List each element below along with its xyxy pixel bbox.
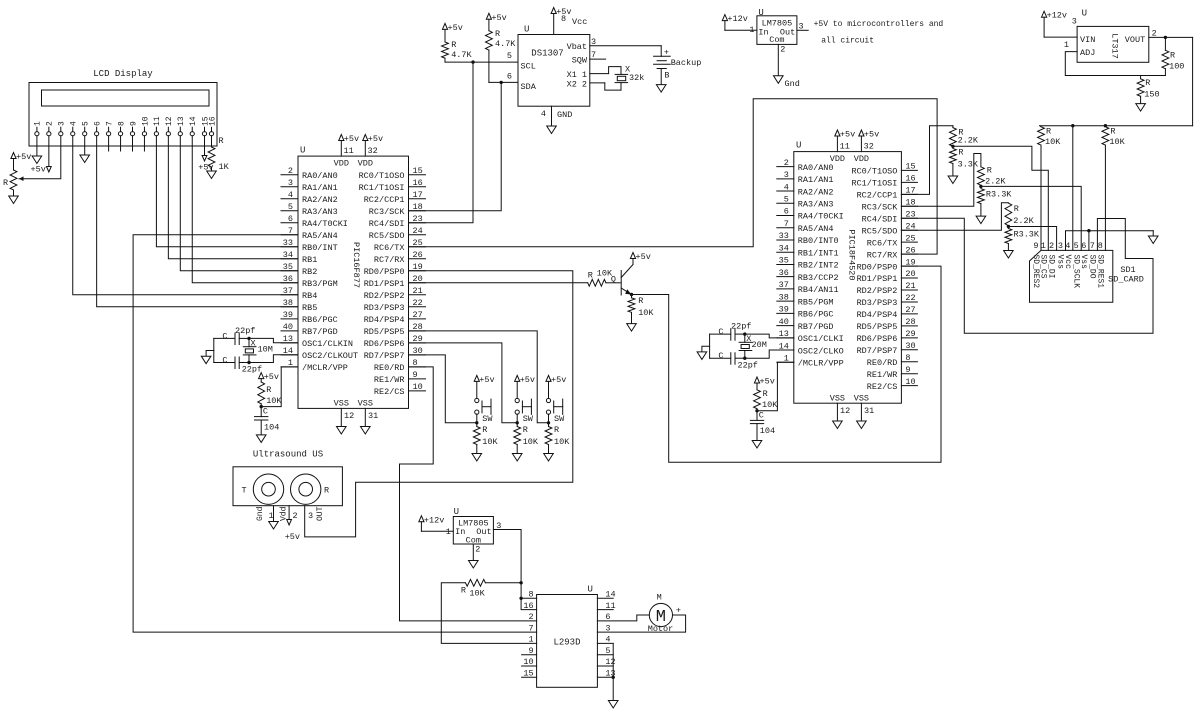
- svg-text:35: 35: [283, 262, 293, 272]
- 3.3v rail: [1040, 125, 1193, 127]
- svg-text:4: 4: [70, 121, 79, 126]
- svg-text:VSS: VSS: [854, 394, 869, 404]
- ground MCLR cap: [256, 435, 266, 443]
- svg-text:RC7/RX: RC7/RX: [867, 250, 898, 260]
- pin 12 VSS: [836, 403, 838, 421]
- ground emitter resistor: [627, 324, 637, 332]
- LCD pin 5: [83, 132, 87, 136]
- pin 19 RD0/PSP0: [901, 265, 917, 267]
- svg-text:36: 36: [779, 268, 789, 278]
- svg-text:Vbat: Vbat: [567, 42, 587, 52]
- wire SDA to PIC16F877 RC3/SCK: [409, 82, 502, 210]
- svg-text:8: 8: [1098, 241, 1103, 251]
- node R10K2 rail junction: [1104, 124, 1107, 127]
- resistor R 4.7K on SDA: [486, 13, 491, 19]
- svg-text:RD2/PSP2: RD2/PSP2: [364, 291, 405, 301]
- wire to VIN pin3: [1044, 36, 1077, 38]
- ground L293D: [608, 701, 618, 709]
- svg-text:1: 1: [1064, 40, 1069, 50]
- svg-text:2: 2: [288, 166, 293, 176]
- svg-text:GND: GND: [557, 110, 572, 120]
- svg-text:C: C: [759, 411, 764, 421]
- svg-text:RA1/AN1: RA1/AN1: [798, 175, 834, 185]
- regulator U6 LM7805 (bottom): [453, 517, 493, 545]
- svg-text:RC5/SDO: RC5/SDO: [369, 231, 405, 241]
- svg-text:RC0/T1OSO: RC0/T1OSO: [359, 171, 405, 181]
- pin 2 Com to ground: [472, 544, 474, 561]
- svg-text:Q: Q: [611, 275, 616, 285]
- pin 17 RC2/CCP1: [901, 193, 917, 195]
- svg-text:SD_CS: SD_CS: [1038, 255, 1047, 279]
- svg-text:RB7/PGD: RB7/PGD: [798, 322, 834, 332]
- svg-text:RC3/SCK: RC3/SCK: [369, 207, 406, 217]
- +5v pin11: [339, 135, 344, 141]
- pin 1 Gnd: [273, 506, 275, 522]
- svg-text:ADJ: ADJ: [1080, 48, 1095, 58]
- svg-text:5: 5: [507, 51, 512, 61]
- svg-text:24: 24: [413, 226, 423, 236]
- svg-text:100: 100: [1169, 62, 1184, 72]
- svg-text:R: R: [638, 296, 643, 306]
- resistor R 4.7K on SCL: [442, 23, 447, 29]
- svg-text:6: 6: [1081, 241, 1086, 251]
- svg-text:RB0/INT0: RB0/INT0: [798, 236, 839, 246]
- svg-text:3: 3: [1072, 17, 1077, 27]
- resistor R 10K pullup (SD_RES1): [1102, 127, 1109, 145]
- svg-text:RB5: RB5: [302, 303, 317, 313]
- wire R10K to L293D pin1: [441, 583, 536, 644]
- pin 25 RC6/TX: [901, 241, 917, 243]
- svg-text:M: M: [657, 593, 662, 603]
- node emitter junction: [630, 293, 633, 296]
- L293D pin 11: [597, 609, 613, 611]
- svg-text:RC3/SCK: RC3/SCK: [862, 202, 899, 212]
- svg-text:RD2/PSP2: RD2/PSP2: [857, 286, 898, 296]
- svg-text:16: 16: [413, 178, 423, 188]
- svg-text:R: R: [219, 136, 224, 146]
- +12v input: [419, 516, 424, 522]
- svg-text:6: 6: [288, 214, 293, 224]
- svg-text:2: 2: [1152, 29, 1157, 39]
- svg-text:8: 8: [905, 353, 910, 363]
- pin 28 RD5/PSP5: [409, 330, 426, 332]
- pin 21 RD2/PSP2: [409, 294, 426, 296]
- pin 8 Vcc: [553, 14, 555, 35]
- LCD pin 10: [142, 132, 146, 136]
- pin 1 /MCLR/VPP: [777, 361, 794, 363]
- pin 4 RA2/AN2: [777, 190, 794, 192]
- pin 32 VDD: [364, 141, 366, 157]
- svg-text:DS1307: DS1307: [531, 49, 563, 59]
- svg-text:RB4/AN11: RB4/AN11: [798, 285, 839, 295]
- L293D pin 15: [522, 676, 537, 678]
- svg-text:VOUT: VOUT: [1125, 35, 1145, 45]
- svg-text:2: 2: [46, 121, 55, 126]
- svg-text:C: C: [718, 351, 723, 361]
- svg-text:OSC1/CLKIN: OSC1/CLKIN: [302, 339, 353, 349]
- svg-text:9: 9: [1033, 241, 1038, 251]
- svg-text:104: 104: [264, 423, 279, 433]
- LCD pin 12: [166, 132, 170, 136]
- svg-text:39: 39: [779, 305, 789, 315]
- svg-text:RD7/PSP7: RD7/PSP7: [857, 346, 898, 356]
- svg-text:Gnd: Gnd: [256, 506, 265, 521]
- svg-text:Vdd: Vdd: [279, 506, 288, 521]
- svg-text:R: R: [461, 585, 466, 595]
- LCD pin 10 stub: [143, 136, 145, 151]
- svg-text:+5v: +5v: [636, 252, 651, 262]
- ground pin31: [361, 427, 371, 435]
- svg-text:+5v: +5v: [344, 134, 359, 144]
- pin 21 RD2/PSP2: [901, 289, 917, 291]
- pin 14 OSC2/CLKOUT: [281, 354, 298, 356]
- svg-text:RE2/CS: RE2/CS: [374, 387, 405, 397]
- node switch junction (SW1): [475, 421, 478, 424]
- ground divider3: [1004, 251, 1014, 259]
- svg-text:150: 150: [1144, 89, 1159, 99]
- svg-text:PIC18F4520: PIC18F4520: [847, 229, 857, 280]
- svg-text:RC0/T1OSO: RC0/T1OSO: [851, 167, 897, 177]
- svg-text:R3.3K: R3.3K: [986, 190, 1012, 200]
- divider 1: resistor R 2.2K: [952, 126, 954, 128]
- wire PIC18F4520 RC5/SDO to divider 3: [901, 203, 1008, 230]
- svg-text:RA4/T0CKI: RA4/T0CKI: [798, 212, 844, 222]
- svg-text:33: 33: [779, 231, 789, 241]
- svg-text:3: 3: [288, 178, 293, 188]
- LCD pin 7: [107, 132, 111, 136]
- svg-text:SD_CARD: SD_CARD: [1108, 275, 1144, 285]
- pin 29 RD6/PSP6: [409, 342, 426, 344]
- pin 25 RC6/TX: [409, 246, 426, 248]
- svg-text:RB3/PGM: RB3/PGM: [302, 279, 338, 289]
- wire +12v to In pin1: [725, 29, 757, 31]
- pin 1 /MCLR/VPP: [281, 366, 298, 368]
- wire PIC16F877 RE0 to L293D pin2: [400, 367, 537, 621]
- svg-text:SD_RES1: SD_RES1: [1096, 255, 1105, 289]
- svg-text:Vss: Vss: [1079, 255, 1088, 270]
- wire MCLR to pin1 18F: [757, 362, 794, 411]
- svg-text:+5v: +5v: [760, 377, 775, 387]
- pin 16 RC1/T1OSI: [409, 186, 426, 188]
- svg-text:RD6/PSP6: RD6/PSP6: [857, 334, 898, 344]
- node VOUT junction: [1164, 36, 1167, 39]
- svg-text:VSS: VSS: [358, 399, 373, 409]
- +5v pin32: [859, 130, 864, 136]
- svg-text:RD4/PSP4: RD4/PSP4: [857, 310, 898, 320]
- svg-text:RA2/AN2: RA2/AN2: [798, 187, 834, 197]
- svg-text:3: 3: [308, 511, 313, 521]
- svg-text:R: R: [451, 40, 456, 50]
- svg-text:27: 27: [413, 310, 423, 320]
- svg-text:RB3/CCP2: RB3/CCP2: [798, 273, 839, 283]
- node switch junction (SW3): [547, 421, 550, 424]
- svg-text:all circuit: all circuit: [821, 37, 874, 46]
- svg-text:38: 38: [779, 292, 789, 302]
- ground R150: [1136, 104, 1146, 112]
- svg-text:U: U: [588, 585, 593, 595]
- wire cap to OSC1 18F: [745, 334, 794, 338]
- pin 15 RC0/T1OSO: [901, 169, 917, 171]
- resistor R 10K transistor base: [409, 282, 588, 284]
- LCD pin 2: [47, 132, 51, 136]
- pin 2 RA0/AN0: [777, 166, 794, 168]
- svg-text:R: R: [1014, 204, 1019, 214]
- svg-text:+5v: +5v: [479, 375, 494, 385]
- svg-text:VDD: VDD: [830, 154, 845, 164]
- svg-text:VDD: VDD: [334, 159, 349, 169]
- svg-text:/MCLR/VPP: /MCLR/VPP: [302, 363, 348, 373]
- svg-text:16: 16: [523, 601, 533, 611]
- pin 12 VSS: [340, 408, 342, 426]
- pin 4 GND: [551, 106, 553, 126]
- svg-text:RD1/PSP1: RD1/PSP1: [857, 274, 898, 284]
- svg-text:10: 10: [905, 377, 915, 387]
- wire LCD pin12 to PIC16F877 RB1: [168, 136, 298, 259]
- svg-text:12: 12: [165, 116, 174, 126]
- svg-text:SW: SW: [482, 414, 493, 424]
- svg-text:10K: 10K: [469, 588, 485, 598]
- svg-text:RC4/SDI: RC4/SDI: [862, 214, 898, 224]
- svg-text:32: 32: [368, 146, 378, 156]
- pin 18 RC3/SCK: [409, 210, 426, 212]
- wire to ground: [612, 677, 614, 700]
- wire emitter to PIC18F4520 RD0: [632, 266, 942, 462]
- node Vcc rail junction: [1071, 124, 1074, 127]
- +5v MCLR pullup 18F: [754, 377, 759, 383]
- wire MCLR to pin1: [261, 367, 298, 407]
- svg-text:20M: 20M: [752, 340, 767, 350]
- svg-text:1: 1: [446, 527, 451, 537]
- svg-text:C: C: [263, 407, 268, 417]
- +5v pin11: [835, 130, 840, 136]
- pin 40 RB7/PGD: [777, 325, 794, 327]
- pin 6 SDA: [489, 81, 518, 83]
- LCD pin 6: [95, 132, 99, 136]
- svg-text:+5V to microcontrollers and: +5V to microcontrollers and: [814, 20, 944, 29]
- svg-text:RA0/AN0: RA0/AN0: [798, 163, 834, 173]
- svg-text:4: 4: [541, 109, 546, 119]
- svg-text:RD0/PSP0: RD0/PSP0: [857, 262, 898, 272]
- pin 24 RC5/SDO: [901, 229, 917, 231]
- wire L293D pin6 to motor: [597, 615, 649, 621]
- svg-text:9: 9: [413, 370, 418, 380]
- pin 23 RC4/SDI: [901, 217, 917, 219]
- svg-text:8: 8: [117, 121, 126, 126]
- pin 20 RD1/PSP1: [901, 277, 917, 279]
- svg-text:RD6/PSP6: RD6/PSP6: [364, 339, 405, 349]
- wire LCD pin4 to PIC16F877 RB4: [73, 136, 298, 295]
- pin 26 RC7/RX: [901, 253, 917, 255]
- svg-text:L293D: L293D: [553, 638, 580, 648]
- node R10K junction: [519, 581, 522, 584]
- wire divider2 to SD pin5 SD_SCLK: [981, 186, 1081, 250]
- svg-text:2: 2: [475, 545, 480, 555]
- svg-text:26: 26: [413, 250, 423, 260]
- resistor R 10K enable: [485, 582, 521, 584]
- svg-text:11: 11: [153, 116, 162, 126]
- pin 40 RB7/PGD: [281, 330, 298, 332]
- resistor R 10K MCLR 18F: [754, 390, 761, 409]
- node pin8 junction: [519, 597, 522, 600]
- pin 26 RC7/RX: [409, 258, 426, 260]
- wire divider3 to SD pin2 SD_DI: [1008, 227, 1056, 251]
- svg-text:R: R: [482, 425, 487, 435]
- regulator U4 LT317: [1077, 26, 1149, 62]
- resistor R 1K on LCD pin16: [211, 136, 213, 147]
- svg-text:37: 37: [283, 286, 293, 296]
- pin 29 RD6/PSP6: [901, 337, 917, 339]
- svg-text:15: 15: [905, 162, 915, 172]
- svg-text:RD5/PSP5: RD5/PSP5: [364, 327, 405, 337]
- node SDA junction: [500, 81, 503, 84]
- svg-text:10: 10: [413, 382, 423, 392]
- svg-text:X2 2: X2 2: [567, 79, 587, 89]
- svg-text:R: R: [1110, 127, 1115, 137]
- node MCLR junction: [260, 405, 263, 408]
- svg-text:+5v: +5v: [491, 13, 506, 23]
- pin 5 RA3/AN3: [281, 210, 298, 212]
- wire LCD pin2: [48, 136, 50, 167]
- svg-text:R: R: [1046, 127, 1051, 137]
- pin 7 RA5/AN4: [281, 234, 298, 236]
- svg-text:R: R: [958, 147, 963, 157]
- ground divider1: [948, 176, 958, 184]
- wire crystal caps left 18F: [709, 334, 711, 358]
- svg-text:SQW: SQW: [572, 55, 588, 65]
- svg-text:2: 2: [1049, 241, 1054, 251]
- svg-text:7: 7: [1090, 241, 1095, 251]
- LCD pin 9 stub: [132, 136, 134, 151]
- pin 6 RA4/T0CKI: [281, 222, 298, 224]
- node MCLR junction 18F: [755, 409, 758, 412]
- svg-text:33: 33: [283, 238, 293, 248]
- wire R10K2 to SD pin8: [1104, 145, 1106, 250]
- svg-text:Ultrasound US: Ultrasound US: [253, 450, 323, 460]
- wire PIC16F877 RA5 to L293D pin7: [133, 235, 536, 632]
- wire switch to PIC pin (SW2): [409, 343, 518, 423]
- svg-text:C: C: [222, 356, 227, 366]
- wire SD pin7 SD_DO to PIC18F4520 RC4/SDI: [901, 218, 1153, 333]
- svg-text:22pf: 22pf: [738, 360, 758, 370]
- svg-text:20: 20: [905, 269, 915, 279]
- ground MCLR cap 18F: [752, 441, 762, 449]
- svg-text:RC7/RX: RC7/RX: [374, 255, 405, 265]
- svg-text:RB1: RB1: [302, 255, 317, 265]
- divider 3: resistor R 2.2K: [1005, 203, 1012, 226]
- ground battery: [656, 85, 666, 93]
- svg-text:SW: SW: [554, 414, 565, 424]
- LCD pin 8: [118, 132, 122, 136]
- svg-text:PIC16F877: PIC16F877: [351, 242, 361, 288]
- svg-text:T: T: [242, 485, 247, 495]
- node SCL junction: [471, 60, 474, 63]
- pin 11 VDD: [340, 141, 342, 157]
- svg-text:RB0/INT: RB0/INT: [302, 243, 338, 253]
- pin 16 RC1/T1OSI: [901, 181, 917, 183]
- node divider2 junction: [979, 185, 982, 188]
- svg-text:+5v: +5v: [864, 130, 879, 140]
- svg-text:13: 13: [177, 116, 186, 126]
- resistor R 10K pulldown (SW2): [516, 423, 518, 427]
- svg-text:RB2: RB2: [302, 267, 317, 277]
- svg-text:+5v: +5v: [840, 130, 855, 140]
- svg-text:+: +: [676, 606, 681, 616]
- pin 3 RA1/AN1: [777, 178, 794, 180]
- svg-text:R: R: [987, 166, 992, 176]
- wire rail to SD pin4 Vcc: [1072, 126, 1074, 251]
- svg-text:RD3/PSP3: RD3/PSP3: [364, 303, 405, 313]
- wire switch to PIC pin (SW3): [409, 331, 549, 423]
- LCD pin 1: [35, 132, 39, 136]
- pin 10 RE2/CS: [901, 385, 917, 387]
- svg-text:Vcc: Vcc: [572, 17, 587, 27]
- svg-text:10K: 10K: [1109, 137, 1125, 147]
- pin 34 RB1/INT1: [777, 251, 794, 253]
- svg-text:R: R: [324, 485, 329, 495]
- svg-text:RB1/INT1: RB1/INT1: [798, 248, 839, 258]
- svg-text:RA0/AN0: RA0/AN0: [302, 171, 338, 181]
- ground potentiometer: [9, 196, 19, 204]
- pin 1 X1: [590, 73, 609, 75]
- svg-text:15: 15: [413, 166, 423, 176]
- svg-text:B: B: [664, 71, 669, 81]
- LCD pin 7 stub: [108, 136, 110, 151]
- svg-text:+5v: +5v: [31, 165, 46, 175]
- svg-text:+5v: +5v: [368, 134, 383, 144]
- svg-text:3.3K: 3.3K: [958, 160, 979, 170]
- svg-text:+5v: +5v: [556, 7, 571, 17]
- svg-text:RE0/RD: RE0/RD: [374, 363, 405, 373]
- node pin13 junction: [612, 676, 615, 679]
- pin 35 RB2/INT2: [777, 263, 794, 265]
- pin 24 RC5/SDO: [409, 234, 426, 236]
- svg-text:1: 1: [269, 511, 274, 521]
- svg-text:SD_DO: SD_DO: [1088, 255, 1097, 279]
- L293D pin 9: [522, 654, 537, 656]
- svg-text:10K: 10K: [266, 396, 282, 406]
- wire SD Vss pins to ground: [1066, 231, 1154, 251]
- SD card SD1: [1030, 250, 1113, 302]
- ground divider2: [976, 216, 986, 224]
- node OSC1 junction 18F: [743, 332, 746, 335]
- svg-text:R: R: [763, 389, 768, 399]
- svg-text:RC2/CCP1: RC2/CCP1: [857, 191, 898, 201]
- svg-text:7: 7: [784, 219, 789, 229]
- svg-text:35: 35: [779, 256, 789, 266]
- wire L293D pins 4,5,12,13 common: [597, 642, 613, 644]
- svg-text:2: 2: [784, 158, 789, 168]
- pin 39 RB6/PGC: [777, 312, 794, 314]
- wire LCD pin1 to ground: [36, 136, 38, 156]
- LCD pin 14: [190, 132, 194, 136]
- LCD pin 9: [130, 132, 134, 136]
- svg-text:+5v: +5v: [264, 372, 279, 382]
- svg-text:RD7/PSP7: RD7/PSP7: [364, 351, 405, 361]
- pin 5 RA3/AN3: [777, 202, 794, 204]
- svg-text:2.2K: 2.2K: [1013, 216, 1034, 226]
- divider 2: resistor R 2.2K: [978, 167, 985, 185]
- svg-text:12: 12: [840, 406, 850, 416]
- svg-text:16: 16: [208, 116, 217, 126]
- pin 1 ADJ wire: [1065, 52, 1165, 76]
- svg-text:U: U: [1082, 8, 1087, 18]
- svg-text:C: C: [718, 327, 723, 337]
- svg-text:LCD Display: LCD Display: [93, 69, 153, 79]
- svg-text:2: 2: [528, 612, 533, 622]
- svg-text:8: 8: [528, 590, 533, 600]
- node OSC1 junction: [247, 337, 250, 340]
- svg-text:9: 9: [129, 121, 138, 126]
